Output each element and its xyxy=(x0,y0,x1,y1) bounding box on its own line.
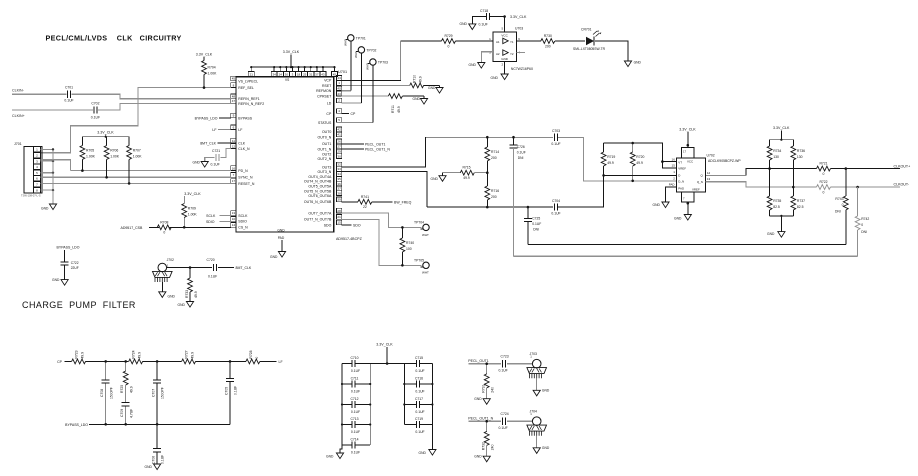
wire C702 to REFIN_N_REF2 jog xyxy=(98,104,231,111)
svg-text:30: 30 xyxy=(337,154,341,158)
svg-text:PECL_OUT1_N: PECL_OUT1_N xyxy=(365,147,390,151)
connector J702 SMA xyxy=(153,258,175,291)
svg-text:0.1UF: 0.1UF xyxy=(351,430,360,434)
resistor R708 0 xyxy=(157,220,171,234)
wire C718 to ground xyxy=(472,17,486,24)
svg-text:NC7WZ16P6X: NC7WZ16P6X xyxy=(511,67,534,71)
capacitor C711 0.1UF xyxy=(342,376,370,393)
svg-text:R711: R711 xyxy=(391,105,395,113)
resistor R710 49.9 xyxy=(410,75,424,88)
svg-text:0.1UF: 0.1UF xyxy=(351,369,360,373)
svg-text:10: 10 xyxy=(232,217,236,221)
svg-text:PECL_OUT1: PECL_OUT1 xyxy=(365,142,385,146)
svg-text:DNI: DNI xyxy=(518,156,524,160)
svg-text:TP705: TP705 xyxy=(414,258,424,262)
svg-text:SCLK: SCLK xyxy=(238,214,248,218)
svg-text:CLKOUT+: CLKOUT+ xyxy=(894,164,911,168)
svg-text:11: 11 xyxy=(232,139,235,143)
ground at R733 xyxy=(178,302,194,308)
svg-text:D: D xyxy=(678,174,680,178)
wire R719/R720 tops to U702 VT VREF xyxy=(604,142,677,168)
svg-text:0.1UF: 0.1UF xyxy=(351,410,360,414)
title text CHARGE PUMP FILTER xyxy=(22,300,136,310)
svg-text:18: 18 xyxy=(297,73,301,77)
svg-text:PD_N: PD_N xyxy=(238,169,248,173)
svg-text:R708: R708 xyxy=(160,220,168,224)
svg-text:TP701: TP701 xyxy=(356,37,366,41)
svg-text:0.1UF: 0.1UF xyxy=(64,99,73,103)
svg-text:CLK: CLK xyxy=(238,142,245,146)
svg-text:OUT5_N_OUT5B: OUT5_N_OUT5B xyxy=(304,189,332,193)
svg-text:VT: VT xyxy=(678,160,682,164)
connector J703 SMA xyxy=(527,352,547,390)
svg-text:LD: LD xyxy=(327,101,332,105)
resistor R705 1.00K xyxy=(80,137,96,171)
svg-text:0: 0 xyxy=(823,172,825,176)
svg-text:200: 200 xyxy=(491,195,497,199)
connector J701 8-pin header xyxy=(14,142,42,198)
svg-text:VCC: VCC xyxy=(687,160,693,164)
wire CR701 to ground xyxy=(595,41,628,61)
svg-text:0.1UF: 0.1UF xyxy=(415,410,424,414)
node CP filter input xyxy=(57,360,63,364)
svg-text:C713: C713 xyxy=(350,417,358,421)
svg-text:17: 17 xyxy=(232,179,236,183)
svg-text:240: 240 xyxy=(490,387,494,393)
node PECL_OUT1 at U701 xyxy=(342,142,386,146)
wire OUT7 to TP704 xyxy=(342,213,422,229)
capacitor C725 0.1UF DNI xyxy=(524,207,541,231)
svg-text:1.00K: 1.00K xyxy=(110,155,120,159)
svg-text:D_N: D_N xyxy=(678,180,684,184)
svg-text:GND: GND xyxy=(474,397,482,401)
node PECL_OUT1 xyxy=(468,359,488,363)
svg-text:Y2: Y2 xyxy=(510,52,514,56)
capacitor C702 0.1UF xyxy=(91,101,100,119)
svg-text:C714: C714 xyxy=(350,437,358,441)
wire RSET to R710 xyxy=(342,84,410,86)
svg-text:R706: R706 xyxy=(110,149,118,153)
svg-text:CLKIN-: CLKIN- xyxy=(12,89,25,93)
connector J704 SMA xyxy=(527,410,547,448)
svg-text:GND: GND xyxy=(178,303,186,307)
capacitor C703 0.1UF xyxy=(551,129,560,146)
svg-text:Q_N: Q_N xyxy=(697,180,703,184)
svg-text:OUT3_N: OUT3_N xyxy=(317,170,331,174)
svg-text:200: 200 xyxy=(545,44,551,48)
svg-text:R733: R733 xyxy=(185,290,189,298)
svg-text:0: 0 xyxy=(255,357,259,359)
ground below U703 xyxy=(491,74,509,80)
svg-text:WHT: WHT xyxy=(422,233,429,237)
wire VCP to R729 xyxy=(342,41,442,80)
svg-text:3.3V_CLK: 3.3V_CLK xyxy=(97,131,114,135)
wire R722 to CLKOUT- xyxy=(831,186,901,189)
svg-text:8MT_CLK: 8MT_CLK xyxy=(200,142,216,146)
wire C724 to J704 xyxy=(507,420,532,422)
svg-text:49.9: 49.9 xyxy=(463,176,470,180)
svg-text:49.9: 49.9 xyxy=(191,352,195,359)
svg-text:A1: A1 xyxy=(496,40,500,44)
svg-text:SDO: SDO xyxy=(324,223,332,227)
svg-text:PECL/CML/LVDS CLK CIRCUIT: PECL/CML/LVDS CLK CIRCUITRY xyxy=(46,34,182,43)
svg-text:SDIO: SDIO xyxy=(206,220,215,224)
svg-text:C721: C721 xyxy=(212,149,220,153)
node BYPASS_LDO at U701 xyxy=(195,117,231,121)
resistor R721 0 xyxy=(817,162,831,176)
node SCLK xyxy=(206,214,231,218)
svg-text:C716: C716 xyxy=(415,376,423,380)
node CLKOUT+ xyxy=(894,164,911,168)
wire R715 to ground xyxy=(443,173,450,176)
wire J702 to C720 xyxy=(167,266,212,269)
svg-text:1.00K: 1.00K xyxy=(188,213,198,217)
node LF filter output xyxy=(279,360,283,364)
wire AD9517_CSB to U701 CS_N xyxy=(149,226,231,229)
svg-text:R704: R704 xyxy=(208,66,216,70)
svg-text:J701: J701 xyxy=(14,142,22,146)
capacitor C713 0.1UF xyxy=(342,417,370,434)
resistor R727 49.9 xyxy=(182,350,196,363)
resistor R725 49.9 series xyxy=(120,361,133,402)
svg-text:0.1UF: 0.1UF xyxy=(351,389,360,393)
node LF at U701 xyxy=(212,128,230,132)
wire R721 to CLKOUT+ xyxy=(831,167,901,170)
resistor R722 0 xyxy=(817,180,831,194)
svg-text:BYPASS: BYPASS xyxy=(238,116,252,120)
svg-text:49.9: 49.9 xyxy=(81,352,85,359)
svg-text:R727: R727 xyxy=(185,350,189,358)
svg-text:GND: GND xyxy=(634,61,642,65)
svg-text:C726: C726 xyxy=(517,145,525,149)
ground at J704 xyxy=(533,446,550,453)
wire REFMON to TP701 xyxy=(342,41,351,91)
svg-text:VCP: VCP xyxy=(324,79,332,83)
wire LD to TP702 xyxy=(342,53,362,103)
wire C725 to black return xyxy=(527,222,529,245)
test point TP703 xyxy=(366,59,388,70)
ground at R710 xyxy=(428,86,443,93)
resistor R732 240 to ground xyxy=(482,421,495,456)
resistor R728 0 xyxy=(246,350,260,363)
power 3.3V_CLK above R704 xyxy=(196,53,213,57)
svg-text:DNI: DNI xyxy=(533,227,539,231)
svg-text:82.5: 82.5 xyxy=(797,205,804,209)
svg-text:130: 130 xyxy=(773,155,779,159)
ground at U703 A2 xyxy=(469,63,485,69)
power 3.3V_CLK cap bank feed xyxy=(370,343,404,365)
svg-text:1.00K: 1.00K xyxy=(86,155,96,159)
ground below U702 xyxy=(674,215,691,221)
capacitor C726 0.1UF DNI xyxy=(510,137,526,160)
svg-text:R729: R729 xyxy=(444,34,452,38)
wire PD_N to U701 xyxy=(71,169,231,172)
svg-text:C703: C703 xyxy=(552,129,560,133)
svg-text:39: 39 xyxy=(337,198,341,202)
wire termination bottom rail xyxy=(770,215,794,232)
svg-text:130: 130 xyxy=(797,155,803,159)
svg-text:16: 16 xyxy=(232,166,236,170)
svg-text:1.00K: 1.00K xyxy=(208,72,218,76)
capacitor C721 0.1UF xyxy=(211,149,221,167)
wire OUT7_N to TP705 xyxy=(342,219,422,266)
resistor R731 240 to ground xyxy=(482,364,495,399)
svg-text:GND: GND xyxy=(419,451,427,455)
svg-text:0.1UF: 0.1UF xyxy=(499,426,508,430)
svg-text:GND: GND xyxy=(168,295,176,299)
svg-text:VREF: VREF xyxy=(678,167,686,171)
svg-text:82.5: 82.5 xyxy=(773,205,780,209)
svg-text:LF: LF xyxy=(212,128,216,132)
svg-text:0: 0 xyxy=(842,203,844,207)
svg-text:13: 13 xyxy=(232,211,236,215)
ground at C706 xyxy=(145,464,161,470)
U701 right pin boxes, numbers and names xyxy=(304,76,342,228)
svg-text:LF: LF xyxy=(238,128,242,132)
svg-text:OUT4_N_OUT4B: OUT4_N_OUT4B xyxy=(304,180,332,184)
svg-text:R734: R734 xyxy=(773,149,781,153)
svg-text:0.1UF: 0.1UF xyxy=(91,116,100,120)
node CP stub xyxy=(342,112,356,116)
svg-text:SML-LXT0805SW-TR: SML-LXT0805SW-TR xyxy=(573,47,606,51)
wire U702 Q_N to CLKOUT- line xyxy=(705,182,816,187)
svg-text:C702: C702 xyxy=(91,101,99,105)
svg-text:47: 47 xyxy=(232,99,236,103)
svg-text:R740: R740 xyxy=(406,241,414,245)
svg-text:0: 0 xyxy=(448,44,450,48)
resistor R741 22 xyxy=(358,195,372,209)
svg-text:REFIN_REF1: REFIN_REF1 xyxy=(238,97,259,101)
svg-text:C722: C722 xyxy=(71,261,79,265)
svg-text:1500PF: 1500PF xyxy=(161,387,165,399)
wire C703 to U702 D_N xyxy=(558,137,677,182)
svg-text:C720: C720 xyxy=(207,258,215,262)
svg-text:STATUS: STATUS xyxy=(318,121,332,125)
svg-text:3.3V_CLK: 3.3V_CLK xyxy=(773,126,790,130)
svg-text:R719: R719 xyxy=(607,155,615,159)
op-amp U703 NC7WZ16P6X dual buffer xyxy=(489,27,534,72)
ground below U701 pad xyxy=(270,252,286,260)
resistor R724 49.9 xyxy=(129,350,143,363)
svg-text:BYPASS_LDO: BYPASS_LDO xyxy=(57,246,80,250)
svg-text:49.9: 49.9 xyxy=(607,161,614,165)
svg-text:GND: GND xyxy=(542,389,550,393)
svg-text:REFMON: REFMON xyxy=(316,89,332,93)
op-amp U702 ADCLK905BCPZ-WP clock buffer xyxy=(669,148,742,203)
svg-text:4.7UF: 4.7UF xyxy=(129,409,133,418)
svg-text:VREF: VREF xyxy=(692,188,700,192)
wire OUT3_N to coupling network bottom xyxy=(342,172,427,208)
svg-text:REFIN_N_REF2: REFIN_N_REF2 xyxy=(238,102,264,106)
svg-text:R724: R724 xyxy=(132,350,136,358)
capacitor C720 0.1UF xyxy=(207,258,218,279)
svg-text:8MT_CLK: 8MT_CLK xyxy=(236,266,252,270)
svg-text:1.00K: 1.00K xyxy=(133,155,143,159)
svg-text:C707: C707 xyxy=(151,389,155,397)
svg-text:TP702: TP702 xyxy=(366,49,376,53)
svg-text:GND: GND xyxy=(431,177,439,181)
svg-text:R705: R705 xyxy=(86,149,94,153)
svg-text:15: 15 xyxy=(672,164,676,168)
svg-text:C701: C701 xyxy=(65,86,73,90)
svg-text:GND: GND xyxy=(474,454,482,458)
ground at R731 xyxy=(474,397,490,404)
svg-text:SDIO: SDIO xyxy=(238,220,247,224)
svg-text:CLKOUT-: CLKOUT- xyxy=(894,183,910,187)
resistor R711 49.9 xyxy=(388,94,402,113)
svg-text:OUT6_OUT6A: OUT6_OUT6A xyxy=(308,194,332,198)
svg-text:PAD: PAD xyxy=(678,186,684,190)
svg-text:21: 21 xyxy=(250,73,254,77)
svg-text:Y1: Y1 xyxy=(510,40,514,44)
resistor R707 1.00K xyxy=(127,137,143,184)
svg-text:GND: GND xyxy=(52,278,60,282)
wire CLK_N to C721 xyxy=(221,149,231,158)
node BYPASS_LDO filter xyxy=(65,423,88,427)
svg-text:C715: C715 xyxy=(415,356,423,360)
wire PECL_OUT1_N to C724 xyxy=(468,420,501,423)
svg-text:R715: R715 xyxy=(462,166,470,170)
svg-text:36: 36 xyxy=(337,182,341,186)
wire CLKIN- to C701 xyxy=(12,93,66,95)
svg-text:R722: R722 xyxy=(819,180,827,184)
capacitor C712 0.1UF xyxy=(342,397,370,414)
capacitor C704 0.1UF xyxy=(551,199,560,216)
svg-text:38: 38 xyxy=(337,191,341,195)
svg-text:12: 12 xyxy=(707,171,711,175)
power 3.3V_CLK to U702 VCC xyxy=(679,128,696,148)
capacitor C714 0.1UF xyxy=(342,437,370,454)
svg-text:31: 31 xyxy=(309,73,313,77)
svg-text:CP: CP xyxy=(57,360,63,364)
svg-text:DNI: DNI xyxy=(835,210,841,214)
wire SYNC_N from J701 pin6 to U701 xyxy=(41,176,231,179)
wire STATUS to TP703 xyxy=(342,65,373,122)
svg-text:3.3V_CLK: 3.3V_CLK xyxy=(283,50,300,54)
node PECL_OUT1_N xyxy=(468,417,493,421)
svg-text:C719: C719 xyxy=(415,417,423,421)
svg-text:16: 16 xyxy=(672,157,676,161)
diode CR701 LED SML-LXT0805SW-TR xyxy=(573,28,606,51)
svg-text:30: 30 xyxy=(285,73,289,77)
wire U703 Y2 stub xyxy=(516,52,525,54)
svg-text:1500PF: 1500PF xyxy=(109,387,113,399)
ground at C722 xyxy=(52,278,68,285)
svg-text:42: 42 xyxy=(337,128,341,132)
svg-text:J702: J702 xyxy=(167,258,174,262)
node 8MT_CLK at U701 CLK pin xyxy=(200,142,231,146)
svg-text:R735: R735 xyxy=(773,199,781,203)
ground at J703 xyxy=(533,389,550,396)
ground at R732 xyxy=(474,454,490,461)
svg-text:0.1UF: 0.1UF xyxy=(551,142,560,146)
resistor R714 200 xyxy=(485,137,499,173)
capacitor C715 0.1UF xyxy=(404,356,432,373)
svg-text:0.1UF: 0.1UF xyxy=(532,222,541,226)
svg-text:49.9: 49.9 xyxy=(129,386,133,393)
wire U702 pin7 to ground xyxy=(687,202,690,215)
svg-text:AD9517-4BCPZ: AD9517-4BCPZ xyxy=(336,237,363,241)
svg-text:CS_N: CS_N xyxy=(238,226,248,230)
svg-text:A2: A2 xyxy=(496,52,500,56)
capacitor C719 0.1UF xyxy=(404,417,432,434)
node CLKIN- xyxy=(12,89,25,93)
svg-text:OUT6_N_OUT6B: OUT6_N_OUT6B xyxy=(304,200,332,204)
capacitor C707 1500PF xyxy=(151,361,164,424)
wire black return C725 to R743 xyxy=(528,244,846,246)
wire REF_SEL from U701 to J701 pin2 xyxy=(41,88,231,153)
resistor R740 100 between TP nets xyxy=(400,227,414,265)
wire OUT6_N to R741 xyxy=(342,201,358,203)
resistor R742 0 DNI xyxy=(855,187,869,256)
capacitor C718 0.1UF xyxy=(479,9,490,27)
test point TP705 xyxy=(414,258,429,274)
svg-text:13: 13 xyxy=(707,177,711,181)
svg-text:37: 37 xyxy=(315,73,319,77)
capacitor C709 4.7UF xyxy=(120,403,133,425)
svg-text:R731: R731 xyxy=(482,384,486,392)
svg-text:CP: CP xyxy=(351,112,357,116)
svg-text:VS: VS xyxy=(285,78,289,82)
test point TP704 xyxy=(414,220,429,236)
svg-text:RESET_N: RESET_N xyxy=(238,182,255,186)
resistor R737 82.5 xyxy=(791,187,805,216)
svg-text:WHT: WHT xyxy=(422,271,429,275)
wire R729 to U703 pin1 xyxy=(456,40,494,42)
svg-text:R737: R737 xyxy=(797,199,805,203)
svg-text:OUT2: OUT2 xyxy=(322,152,331,156)
svg-text:C724: C724 xyxy=(501,412,509,416)
svg-text:C725: C725 xyxy=(532,216,540,220)
node SDO stub xyxy=(342,223,361,227)
svg-text:GND: GND xyxy=(413,97,421,101)
resistor R733 49.9 to ground xyxy=(185,268,198,302)
svg-text:0.1UF: 0.1UF xyxy=(351,450,360,454)
wire U703 Y1 to R730 xyxy=(516,40,541,42)
resistor R723 49.9 xyxy=(72,350,86,363)
test point TP702 xyxy=(354,47,376,58)
U701 left pin boxes, numbers and names xyxy=(231,76,264,230)
svg-text:0.1UF: 0.1UF xyxy=(211,163,220,167)
svg-text:GND: GND xyxy=(41,207,49,211)
svg-text:TSW-108-07-L-S: TSW-108-07-L-S xyxy=(21,194,41,198)
svg-text:27: 27 xyxy=(337,145,341,149)
ground after CR701 xyxy=(624,61,641,67)
wire PECL_OUT1 to C723 xyxy=(468,362,501,365)
svg-text:C709: C709 xyxy=(120,409,124,417)
svg-text:0.1UF: 0.1UF xyxy=(551,212,560,216)
svg-text:32: 32 xyxy=(337,163,341,167)
svg-text:C704: C704 xyxy=(552,199,560,203)
svg-text:28: 28 xyxy=(337,209,341,213)
svg-text:CLKIN+: CLKIN+ xyxy=(12,114,25,118)
resistor R736 130 xyxy=(791,140,805,189)
svg-text:45: 45 xyxy=(333,73,337,77)
svg-text:GND: GND xyxy=(501,57,509,61)
svg-text:GND: GND xyxy=(326,455,334,459)
power 3.3V_CLK at U701 top xyxy=(283,50,300,68)
svg-text:PECL_OUT1_N: PECL_OUT1_N xyxy=(468,417,493,421)
svg-text:24: 24 xyxy=(279,73,283,77)
svg-text:R716: R716 xyxy=(491,189,499,193)
svg-text:U703: U703 xyxy=(515,27,523,31)
svg-text:GND: GND xyxy=(491,76,499,80)
svg-text:GND: GND xyxy=(767,232,775,236)
op-amp U701 AD9517 IC body xyxy=(236,70,363,241)
svg-text:43: 43 xyxy=(321,73,325,77)
wire bottom rail to C704 xyxy=(427,206,553,209)
wire BYPASS_LDO bottom rail xyxy=(89,423,230,426)
